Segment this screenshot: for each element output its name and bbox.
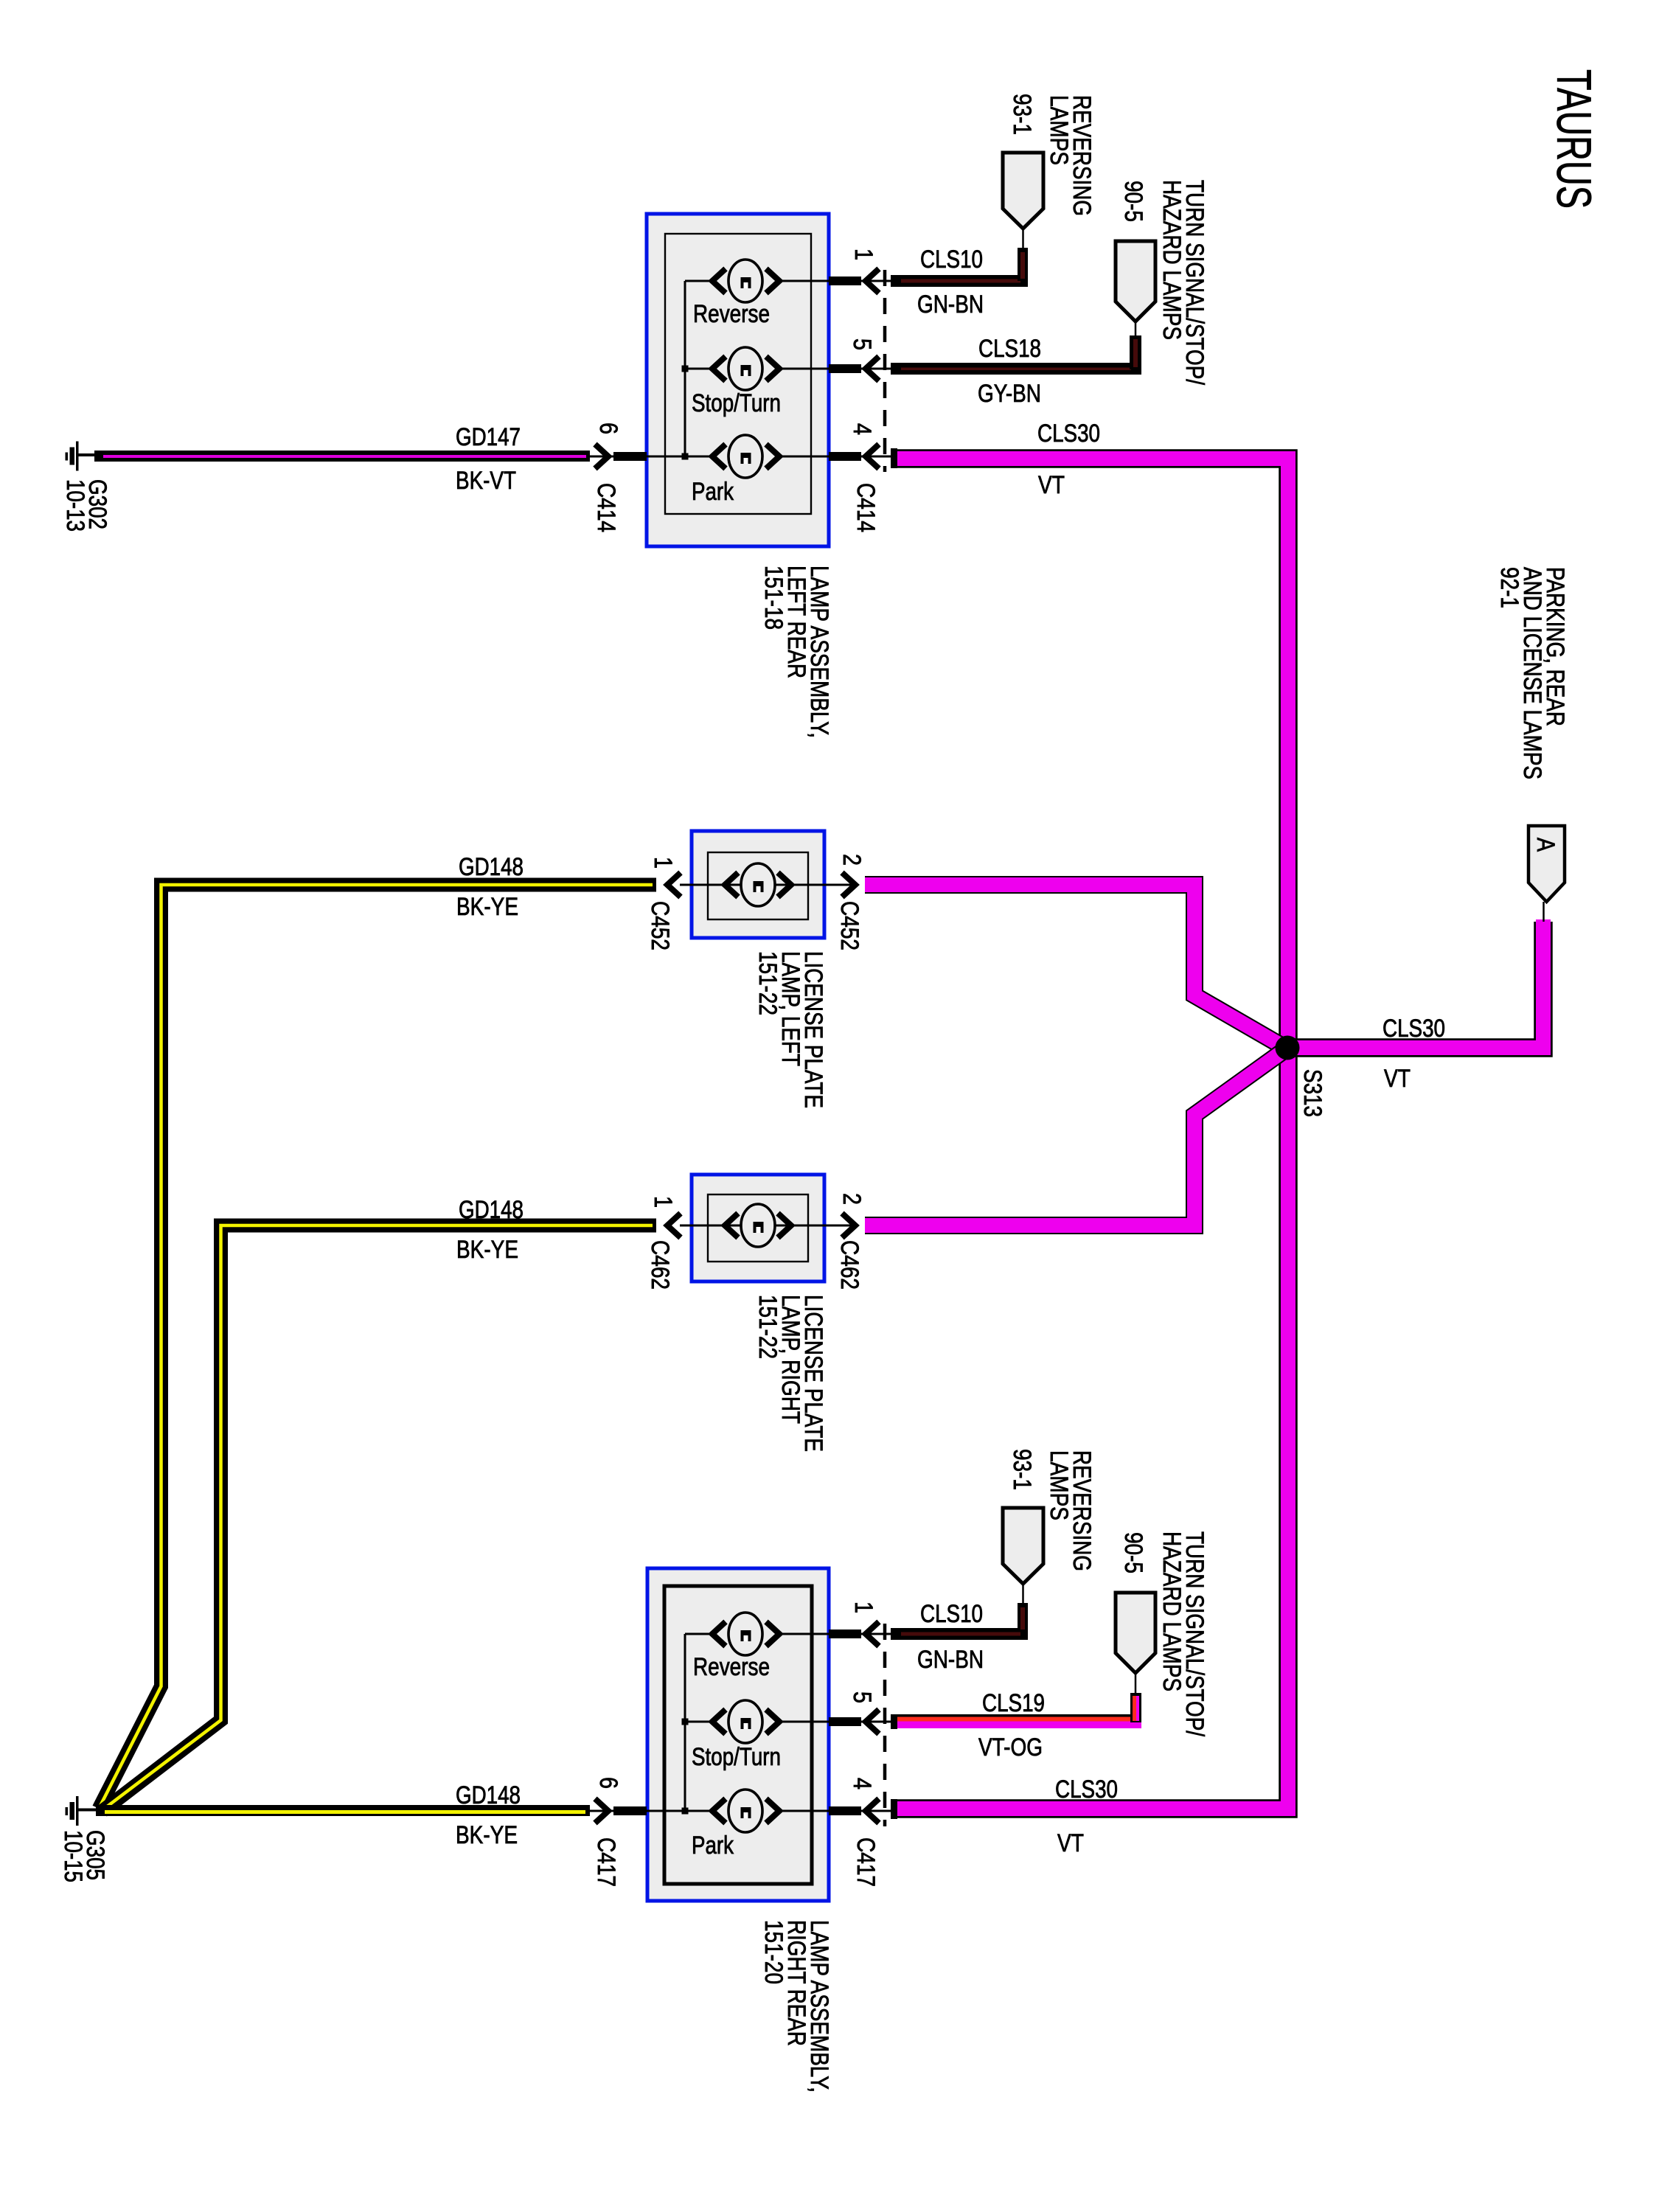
pin 4 stub C414: [829, 445, 891, 469]
wire: stop/turn bulb row: [779, 368, 855, 370]
off-page connector: REVERSING LAMPS (bottom): [1003, 1508, 1043, 1584]
lamp assembly right rear: inner housing: [664, 1586, 812, 1884]
label GN-BN (bottom): [917, 1646, 984, 1674]
label Reverse: [693, 300, 770, 328]
label TURN SIGNAL/STOP/HAZARD LAMPS (top): [1158, 180, 1208, 385]
svg-text:92-1: 92-1: [1495, 567, 1523, 608]
pin 1 stub C417: [829, 1622, 891, 1646]
wire: internal bus left rear lamp: [682, 281, 713, 460]
svg-text:CLS10: CLS10: [920, 246, 983, 274]
svg-text:1: 1: [649, 1196, 677, 1208]
pin number 5: [848, 338, 876, 350]
svg-text:HAZARD LAMPS: HAZARD LAMPS: [1158, 180, 1186, 340]
svg-text:C417: C417: [852, 1837, 880, 1887]
ground G302: [66, 442, 95, 471]
label G305 10-15: [59, 1830, 109, 1882]
label VT (bottom): [1057, 1829, 1084, 1857]
svg-text:C452: C452: [646, 901, 674, 950]
label A: [1531, 838, 1559, 852]
label GY-BN: [978, 380, 1041, 408]
svg-text:C452: C452: [835, 901, 863, 950]
svg-text:GD148: GD148: [459, 1196, 524, 1224]
off-page connector: REVERSING LAMPS (top): [1003, 153, 1043, 229]
svg-text:6: 6: [594, 1777, 622, 1789]
svg-text:CLS30: CLS30: [1037, 420, 1100, 448]
wire CLS10 GN-BN (bottom): [891, 1584, 1028, 1640]
label BK-YE (right license): [456, 1236, 518, 1264]
wire CLS30 VT (top run + trunk + bottom run): [891, 448, 1288, 1809]
wire through license lamp left: [680, 884, 858, 886]
label VT (top): [1038, 471, 1065, 499]
wire: internal bus right rear lamp: [682, 1634, 713, 1815]
svg-text:CLS18: CLS18: [978, 335, 1041, 363]
wire through license lamp right: [680, 1225, 858, 1227]
svg-text:1: 1: [649, 857, 677, 869]
label C452 left: [646, 901, 674, 950]
ground G305: [66, 1796, 97, 1826]
pin number 4: [848, 423, 876, 435]
off-page connector A: [1528, 826, 1565, 902]
label C462 left: [646, 1240, 674, 1290]
bulb: license lamp right: [725, 1204, 791, 1247]
license plate lamp left: housing: [708, 852, 808, 919]
pin number 2 C462: [838, 1193, 866, 1205]
svg-text:GY-BN: GY-BN: [978, 380, 1041, 408]
svg-text:Reverse: Reverse: [693, 300, 770, 328]
label CLS30 (A branch): [1382, 1015, 1445, 1043]
svg-text:90-5: 90-5: [1119, 181, 1147, 222]
wire GD147 BK-VT: [94, 451, 590, 462]
label LAMP ASSEMBLY RIGHT REAR 151-20: [759, 1920, 833, 2093]
label S313: [1298, 1069, 1326, 1117]
svg-text:C462: C462: [835, 1240, 863, 1290]
svg-text:5: 5: [848, 338, 876, 350]
label REVERSING LAMPS (top): [1045, 95, 1096, 216]
label G302 10-13: [61, 479, 111, 532]
svg-text:HAZARD LAMPS: HAZARD LAMPS: [1158, 1531, 1186, 1691]
wire CLS19 VT-OG: [891, 1673, 1141, 1729]
pin number 2 C452: [838, 854, 866, 866]
wire CLS30 VT to left license lamp: [865, 885, 1289, 1050]
title TAURUS: [1547, 69, 1601, 209]
label TURN SIGNAL/STOP/HAZARD LAMPS (bottom): [1158, 1531, 1208, 1736]
label C414 left: [592, 483, 620, 532]
pin 2 arrow C462: [842, 1214, 855, 1238]
svg-text:LAMPS: LAMPS: [1045, 1450, 1073, 1520]
svg-text:93-1: 93-1: [1008, 1449, 1036, 1490]
svg-text:4: 4: [848, 423, 876, 435]
label GD148 (right license): [459, 1196, 524, 1224]
svg-text:GD147: GD147: [456, 423, 521, 451]
off-page connector: TURN SIGNAL/STOP/HAZARD LAMPS (top): [1116, 241, 1155, 321]
label GN-BN (top): [917, 291, 984, 319]
bulb: Reverse (left rear): [712, 260, 779, 302]
svg-text:BK-YE: BK-YE: [456, 893, 518, 921]
svg-text:4: 4: [848, 1778, 876, 1790]
svg-text:Reverse: Reverse: [693, 1653, 770, 1681]
svg-text:CLS19: CLS19: [982, 1689, 1045, 1717]
svg-text:2: 2: [838, 1193, 866, 1205]
label CLS18: [978, 335, 1041, 363]
label 90-5 (bottom): [1119, 1532, 1147, 1573]
connector C417 dashed line: [883, 1624, 887, 1826]
svg-text:1: 1: [849, 248, 877, 260]
label LICENSE PLATE LAMP RIGHT: [754, 1295, 827, 1452]
lamp assembly left rear: outer case: [647, 214, 829, 546]
svg-text:VT: VT: [1038, 471, 1065, 499]
pin number 1 C452: [649, 857, 677, 869]
svg-text:A: A: [1531, 838, 1559, 852]
svg-text:VT: VT: [1057, 1829, 1084, 1857]
svg-text:CLS30: CLS30: [1382, 1015, 1445, 1043]
wire GD148 BK-YE (bottom): [96, 1805, 590, 1816]
label BK-YE (bottom): [456, 1821, 518, 1849]
label PARKING REAR AND LICENSE LAMPS 92-1: [1495, 567, 1569, 779]
label 93-1 (top): [1008, 94, 1036, 135]
svg-text:BK-VT: BK-VT: [456, 467, 516, 495]
svg-text:Park: Park: [692, 478, 734, 506]
label Park: [692, 478, 734, 506]
svg-text:10-13: 10-13: [61, 479, 89, 532]
label GD147: [456, 423, 521, 451]
pin 1 stub C414: [829, 269, 891, 293]
pin number 1 C462: [649, 1196, 677, 1208]
pin 1 arrow C462: [667, 1214, 681, 1238]
svg-text:C414: C414: [592, 483, 620, 532]
svg-text:151-18: 151-18: [759, 566, 787, 630]
pin number 5 (C417): [848, 1691, 876, 1703]
pin 5 stub C417: [829, 1710, 891, 1734]
label CLS30 (top): [1037, 420, 1100, 448]
label VT (A branch): [1384, 1065, 1411, 1093]
svg-text:GN-BN: GN-BN: [917, 291, 984, 319]
label 93-1 (bottom): [1008, 1449, 1036, 1490]
svg-text:5: 5: [848, 1691, 876, 1703]
pin number 6: [594, 422, 622, 434]
pin 2 arrow C452: [842, 873, 855, 897]
svg-text:2: 2: [838, 854, 866, 866]
svg-text:GN-BN: GN-BN: [917, 1646, 984, 1674]
wire: park bulb row (right rear): [603, 1810, 855, 1812]
off-page connector: TURN SIGNAL/STOP/HAZARD LAMPS (bottom): [1116, 1593, 1155, 1673]
bulb: Stop/Turn (right rear): [712, 1700, 779, 1743]
wire: park bulb row: [603, 456, 855, 458]
bulb: Park (right rear): [712, 1790, 779, 1832]
svg-text:90-5: 90-5: [1119, 1532, 1147, 1573]
pin 6 stub C417: [590, 1799, 647, 1823]
label GD148 (bottom): [456, 1781, 521, 1809]
pin 1 arrow C452: [667, 873, 681, 897]
label VT-OG: [978, 1733, 1043, 1761]
label C414 right: [852, 483, 880, 532]
label CLS19: [982, 1689, 1045, 1717]
label BK-YE (left license): [456, 893, 518, 921]
svg-text:S313: S313: [1298, 1069, 1326, 1117]
wire: reverse bulb row (right rear): [779, 1633, 855, 1635]
label CLS10 (top): [920, 246, 983, 274]
svg-text:GD148: GD148: [456, 1781, 521, 1809]
bulb: Stop/Turn (left rear): [712, 347, 779, 390]
pin number 6 (C417): [594, 1777, 622, 1789]
bulb: license lamp left: [725, 863, 791, 906]
lamp assembly left rear: inner housing: [665, 234, 811, 514]
svg-text:93-1: 93-1: [1008, 94, 1036, 135]
label GD148 (left license): [459, 853, 524, 881]
label C462 right: [835, 1240, 863, 1290]
svg-text:Park: Park: [692, 1832, 734, 1860]
svg-text:151-22: 151-22: [754, 951, 782, 1015]
wire: stop/turn bulb row (right rear): [779, 1721, 855, 1723]
bulb: Reverse (right rear): [712, 1613, 779, 1655]
svg-text:CLS10: CLS10: [920, 1600, 983, 1628]
splice dot S313: [1276, 1036, 1300, 1060]
svg-text:10-15: 10-15: [59, 1830, 87, 1882]
svg-text:LAMPS: LAMPS: [1045, 95, 1073, 165]
pin 4 stub C417: [829, 1799, 891, 1823]
svg-text:C414: C414: [852, 483, 880, 532]
svg-text:C462: C462: [646, 1240, 674, 1290]
svg-text:VT: VT: [1384, 1065, 1411, 1093]
svg-text:C417: C417: [592, 1837, 620, 1887]
svg-text:TAURUS: TAURUS: [1547, 69, 1601, 209]
license plate lamp left: case: [692, 831, 824, 938]
label C452 right: [835, 901, 863, 950]
pin 6 stub C414: [590, 445, 647, 469]
svg-text:BK-YE: BK-YE: [456, 1821, 518, 1849]
wire CLS18 GY-BN: [891, 321, 1141, 375]
wire CLS30 VT to right license lamp: [865, 1047, 1289, 1225]
svg-text:CLS30: CLS30: [1055, 1775, 1118, 1804]
svg-text:6: 6: [594, 422, 622, 434]
label BK-VT: [456, 467, 516, 495]
wire GD148 BK-YE (right license): [102, 1225, 656, 1811]
bulb: Park (left rear): [712, 435, 779, 478]
label Stop/Turn: [692, 389, 781, 417]
svg-text:151-22: 151-22: [754, 1295, 782, 1359]
label LICENSE PLATE LAMP LEFT: [754, 951, 827, 1108]
pin number 4 (C417): [848, 1778, 876, 1790]
label CLS10 (bottom): [920, 1600, 983, 1628]
label C417 left: [592, 1837, 620, 1887]
pin 5 stub C414: [829, 357, 891, 381]
pin number 1: [849, 248, 877, 260]
wire CLS30 VT to connector A: [1287, 902, 1544, 1048]
svg-text:BK-YE: BK-YE: [456, 1236, 518, 1264]
license plate lamp right: housing: [708, 1194, 808, 1262]
label Stop/Turn (right rear): [692, 1743, 781, 1771]
wire: reverse bulb row: [779, 280, 855, 282]
svg-text:1: 1: [849, 1601, 877, 1613]
pin number 1 (C417): [849, 1601, 877, 1613]
connector C414 dashed line: [883, 270, 887, 472]
lamp assembly right rear: outer case: [647, 1568, 829, 1901]
wire CLS30 VT (bottom run cap): [891, 1799, 897, 1819]
svg-text:151-20: 151-20: [759, 1920, 787, 1984]
license plate lamp right: case: [692, 1175, 824, 1281]
svg-text:GD148: GD148: [459, 853, 524, 881]
svg-text:VT-OG: VT-OG: [978, 1733, 1043, 1761]
label Park (right rear): [692, 1832, 734, 1860]
label CLS30 (bottom): [1055, 1775, 1118, 1804]
label Reverse (right rear): [693, 1653, 770, 1681]
label C417 right: [852, 1837, 880, 1887]
wire GD148 BK-YE (left license): [99, 885, 656, 1809]
svg-text:Stop/Turn: Stop/Turn: [692, 1743, 781, 1771]
svg-text:Stop/Turn: Stop/Turn: [692, 389, 781, 417]
label LAMP ASSEMBLY LEFT REAR 151-18: [759, 566, 833, 738]
label 90-5 (top): [1119, 181, 1147, 222]
wire CLS10 GN-BN (top): [891, 229, 1028, 287]
label REVERSING LAMPS (bottom): [1045, 1450, 1096, 1571]
